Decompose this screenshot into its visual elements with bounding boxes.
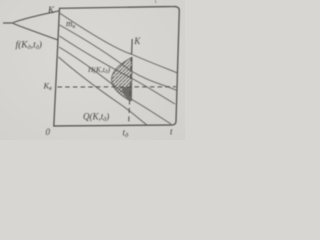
svg-text:tд: tд bbox=[123, 128, 130, 140]
svg-text:t: t bbox=[170, 127, 173, 137]
svg-text:mк: mк bbox=[66, 19, 77, 31]
svg-text:K: K bbox=[47, 5, 55, 15]
svg-text:Q(K,tд): Q(K,tд) bbox=[83, 112, 109, 124]
svg-text:K: K bbox=[133, 36, 141, 46]
svg-text:f(Kд,tд): f(Kд,tд) bbox=[16, 40, 42, 52]
svg-text:H(K,tд): H(K,tд) bbox=[87, 65, 111, 75]
svg-text:0: 0 bbox=[46, 127, 51, 137]
svg-text:Kв: Kв bbox=[43, 81, 53, 93]
